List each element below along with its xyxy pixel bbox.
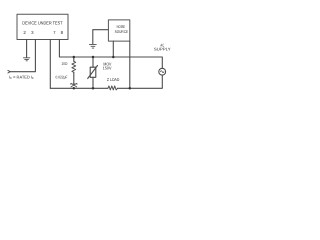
wire pin 3 lead to IF input	[10, 40, 35, 72]
wire bottom rail right	[118, 75, 163, 88]
resistor Z LOAD zigzag	[108, 86, 118, 90]
ground G2	[89, 44, 96, 48]
wire bottom rail left	[50, 87, 108, 89]
wire pin 2 lead	[26, 40, 28, 58]
svg-text:0.022μF: 0.022μF	[56, 74, 68, 79]
AC supply source V1	[159, 68, 166, 75]
svg-text:DEVICE UNDER TEST: DEVICE UNDER TEST	[22, 20, 62, 25]
varistor RV1 MOV body	[90, 67, 96, 77]
capacitor C1 0.022uF	[70, 83, 77, 87]
wire noise source pin left	[112, 41, 114, 57]
svg-text:150V: 150V	[103, 65, 112, 70]
wire pin 8 lead down to top bus	[59, 40, 162, 69]
svg-text:10Ω: 10Ω	[61, 61, 67, 66]
wire noise source pin right down to bottom rail	[129, 41, 131, 88]
varistor RV1 MOV lead bottom	[92, 77, 94, 88]
ground G1	[23, 58, 29, 61]
wire noise source left lead	[93, 30, 108, 44]
varistor RV1 MOV lead top	[92, 57, 94, 67]
resistor R1 10 ohm	[72, 57, 76, 84]
arrowhead IF input	[8, 70, 10, 73]
svg-text:IF = RATED IF: IF = RATED IF	[9, 74, 34, 80]
noise source box	[108, 20, 129, 41]
device under test box U1	[17, 14, 68, 39]
junction node dots	[73, 56, 132, 90]
wire pin 7 lead down	[49, 40, 51, 89]
varistor RV1 MOV diagonal	[88, 66, 98, 79]
svg-text:Z LOAD: Z LOAD	[107, 77, 119, 82]
svg-text:SUPPLY: SUPPLY	[154, 47, 171, 52]
svg-text:SOURCE: SOURCE	[115, 29, 129, 34]
